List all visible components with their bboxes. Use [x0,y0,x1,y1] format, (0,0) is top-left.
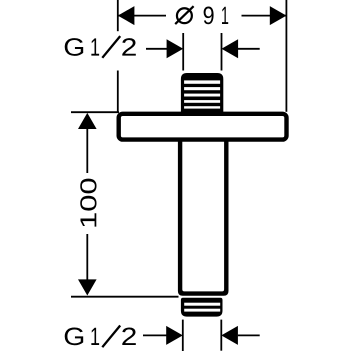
dimension G1/2 bottom left-pointing arrowhead [221,326,238,345]
label D91 value text [175,6,228,24]
dimension D91 right extension line [285,0,287,112]
dimension D91 left extension line [117,0,119,31]
threaded outlet nut [181,298,223,317]
dimension G1/2 bottom left tick [182,320,184,351]
dimension 100 line lower segment [86,234,88,281]
dimension G1/2 bottom right tick [220,320,222,351]
dimension 100 up arrowhead [78,113,97,129]
dimension 100 down arrowhead [78,279,97,295]
dimension G1/2 bottom right-pointing arrowhead [166,326,183,345]
dimension G1/2 bottom right tail line [238,334,260,336]
threaded inlet white stripes [184,80,220,108]
dimension 100 line upper segment [86,129,88,174]
dimension D91 line left segment [118,15,166,17]
dimension D91 line right segment [242,15,287,17]
ceiling flange plate [119,114,287,140]
dimension 100 bottom extension line [71,296,179,298]
dimension D91 right arrowhead [270,6,287,25]
dimension G1/2 top leader line [146,48,170,50]
dimension 100 top extension line [71,111,119,113]
dimension G1/2 top right tick [221,33,223,71]
dimension D91 left arrowhead [118,6,135,25]
dimension G1/2 top right tail line [238,48,260,50]
dimension G1/2 top label text [65,36,136,58]
pipe walls with closed rounded bottom edge [178,139,229,296]
dimension G1/2 top left-pointing arrowhead [222,39,239,58]
dimension G1/2 bottom leader line [143,334,170,336]
threaded inlet block [181,73,223,116]
threaded outlet white stripes [184,303,220,312]
dimension G1/2 top right-pointing arrowhead [167,39,184,58]
dimension G1/2 top left tick [182,33,184,71]
dimension D91 left extension line lower segment [117,71,119,113]
dimension G1/2 bottom label text [65,326,136,348]
label 100 value text (rotated) [80,213,96,226]
